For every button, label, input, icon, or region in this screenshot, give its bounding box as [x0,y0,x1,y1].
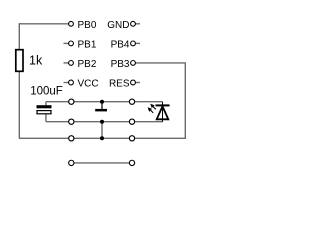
wire PB0 to resistor branch (top horizontal) [19,23,69,25]
wire right vertical rail [184,63,186,139]
ground bar [95,109,107,112]
wire row C horizontal (pin row to right rail) [19,137,185,139]
svg-text:PB3: PB3 [111,59,130,70]
wire capacitor bottom lead [45,114,47,122]
wire row D horizontal [71,162,132,164]
pin GND [131,21,136,26]
junction dot row A [100,100,104,104]
svg-text:PB1: PB1 [78,40,97,51]
wire left vertical below resistor [18,71,20,138]
wire stub PB4 [135,42,140,44]
wire stub PB2 [64,62,69,64]
capacitor C 100uF bottom plate (-) [37,111,51,114]
pin PB0 [69,21,74,26]
wire stub GND [135,23,140,25]
svg-text:PB2: PB2 [78,59,97,70]
pin PB4 [131,41,136,46]
svg-text:RES: RES [109,79,130,90]
svg-text:GND: GND [107,20,129,31]
wire PB3 to right rail [136,62,187,64]
pin VCC [69,80,74,85]
resistor R 1k [16,50,23,72]
svg-text:100uF: 100uF [30,85,63,97]
wire left vertical above resistor [18,23,20,50]
junction dot row C [100,136,104,140]
header pin row D left [69,160,74,165]
wire row B horizontal (cap - to LED anode) [46,121,163,123]
ground stub [101,102,103,109]
wire stub RES [135,82,140,84]
pin PB3 [131,61,136,66]
LED D1 center lead [162,102,164,122]
junction dot row B [100,120,104,124]
header pin row B right [129,119,134,124]
pin PB2 [69,61,74,66]
header pin row C right [129,136,134,141]
LED D1 triangle [157,106,169,119]
header pin row D right [129,160,134,165]
header pin row B left [69,119,74,124]
wire junction row B to row C vertical [101,122,103,139]
wire capacitor top lead [45,102,47,106]
wire stub VCC [64,82,69,84]
header pin row A right [129,99,134,104]
LED D1 cathode bar [156,104,170,106]
wire stub PB1 [64,42,69,44]
header pin row C left [69,136,74,141]
LED D1 light arrow 2 [151,105,156,110]
wire row A horizontal (cap + to LED cathode) [46,101,163,103]
header pin row A left [69,99,74,104]
LED D1 lead through triangle [162,106,164,121]
capacitor C 100uF top plate (+) [37,105,52,108]
svg-text:1k: 1k [29,54,43,68]
pin RES [131,80,136,85]
svg-text:PB4: PB4 [111,40,130,51]
svg-text:VCC: VCC [78,79,99,90]
LED D1 light arrow 1 [149,108,154,113]
pin PB1 [69,41,74,46]
svg-text:PB0: PB0 [78,20,97,31]
